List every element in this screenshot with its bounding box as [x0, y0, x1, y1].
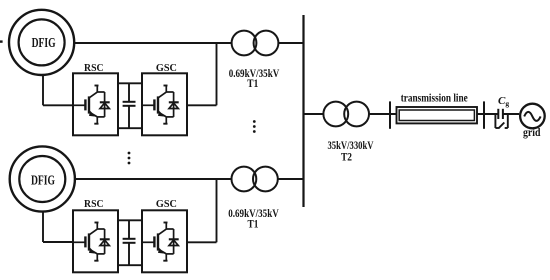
wire T1 bottom to bus [278, 178, 304, 180]
DC link bottom wire 2 [118, 264, 142, 266]
transformer T1 top [232, 31, 279, 56]
series capacitor Cg [498, 109, 503, 119]
svg-text:T1: T1 [248, 219, 259, 231]
bypass switch of Cg [495, 114, 507, 128]
svg-text:RSC: RSC [84, 199, 104, 210]
wire T1 top to bus [278, 42, 303, 44]
IGBT inside RSC1 [73, 86, 110, 124]
DC link top wire 1 [118, 82, 142, 84]
generator DFIG 1 (top) [9, 10, 74, 75]
capacitor C dc-link 2 [123, 220, 136, 265]
DC link bottom wire 1 [118, 127, 142, 129]
converter GSC1 box [142, 73, 187, 135]
IGBT inside GSC1 [142, 86, 179, 124]
wire Cg to grid [503, 113, 519, 115]
IGBT inside RSC2 [73, 223, 110, 261]
transformer T1 bottom [232, 167, 278, 192]
ellipsis dots between converter rows [128, 152, 131, 165]
svg-text:Cg: Cg [498, 95, 509, 108]
wire bus to T2 [304, 113, 324, 115]
svg-text:DFIG: DFIG [32, 36, 56, 51]
wire into RSC2 [43, 241, 73, 243]
svg-text:RSC: RSC [84, 63, 104, 74]
svg-text:grid: grid [523, 127, 541, 139]
wire DFIG1 stator to T1 (top) [74, 42, 232, 44]
svg-text:DFIG: DFIG [31, 174, 55, 189]
converter GSC2 box [142, 210, 187, 272]
IGBT inside GSC2 [142, 223, 179, 261]
svg-text:transmission line: transmission line [401, 90, 469, 104]
ellipsis dots between transformers [253, 120, 256, 133]
wire DFIG1 rotor drop [42, 75, 44, 105]
wire GSC1 output [187, 104, 217, 106]
wire GSC1 riser to stator wire [216, 43, 218, 105]
svg-text:35kV/330kV: 35kV/330kV [328, 138, 374, 152]
bus tick right of transmission line [483, 101, 485, 128]
wire transmission line to Cg [477, 113, 498, 115]
wire DFIG2 rotor drop [42, 212, 44, 242]
wire GSC2 riser to stator wire [216, 179, 218, 242]
transformer T2 [323, 102, 369, 127]
svg-text:GSC: GSC [156, 63, 177, 74]
wire GSC2 output [187, 241, 217, 243]
converter RSC1 box [73, 73, 118, 135]
wire T2 to transmission line [369, 113, 397, 115]
generator DFIG 2 (bottom) [10, 146, 75, 211]
collector bus bar [302, 15, 304, 207]
svg-text:GSC: GSC [156, 199, 177, 210]
wire into RSC1 [43, 104, 73, 106]
svg-text:T2: T2 [341, 152, 352, 164]
capacitor C dc-link 1 [123, 83, 136, 128]
svg-text:T1: T1 [247, 78, 258, 90]
converter RSC2 box [73, 210, 118, 272]
wire DFIG2 stator to T1 (bottom) [75, 178, 232, 180]
stub wire at left edge [0, 40, 3, 42]
transmission line box [397, 107, 478, 123]
DC link top wire 2 [118, 219, 142, 221]
bus tick left of transmission line [389, 101, 391, 128]
grid source symbol [520, 104, 545, 129]
